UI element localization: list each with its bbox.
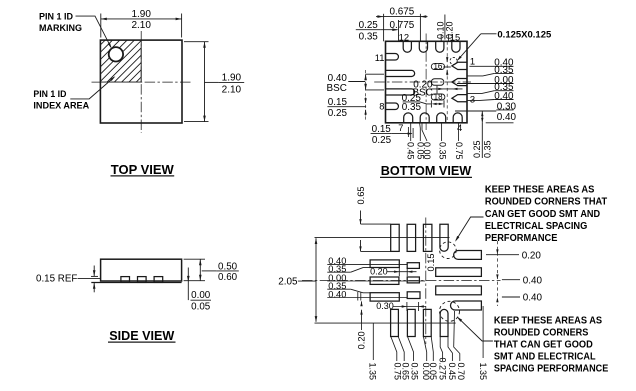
svg-text:0.30: 0.30	[376, 301, 394, 311]
svg-text:0.00: 0.00	[191, 290, 211, 301]
svg-text:0.25: 0.25	[472, 140, 482, 158]
svg-text:1.90: 1.90	[131, 9, 151, 20]
svg-text:0.50: 0.50	[218, 261, 238, 272]
svg-text:2.10: 2.10	[222, 85, 242, 96]
svg-text:BOTTOM VIEW: BOTTOM VIEW	[381, 163, 472, 178]
svg-text:ELECTRICAL SPACING: ELECTRICAL SPACING	[485, 221, 588, 232]
svg-text:0.40: 0.40	[497, 112, 517, 123]
svg-text:0.40: 0.40	[494, 91, 514, 102]
svg-text:8: 8	[379, 100, 384, 111]
svg-text:3: 3	[470, 94, 475, 105]
svg-text:INDEX AREA: INDEX AREA	[33, 100, 89, 111]
svg-text:0.25: 0.25	[372, 135, 392, 146]
svg-text:1.90: 1.90	[222, 73, 242, 84]
svg-text:SPACING PERFORMANCE: SPACING PERFORMANCE	[494, 364, 609, 375]
svg-text:12: 12	[399, 31, 409, 42]
svg-text:0.65: 0.65	[400, 362, 410, 380]
svg-text:ROUNDED CORNERS THAT: ROUNDED CORNERS THAT	[485, 197, 607, 208]
svg-text:PIN 1 ID: PIN 1 ID	[39, 11, 73, 22]
svg-text:SMT AND ELECTRICAL: SMT AND ELECTRICAL	[494, 352, 596, 363]
svg-text:0.20: 0.20	[370, 267, 388, 277]
svg-text:0.60: 0.60	[218, 272, 238, 283]
svg-text:0.20: 0.20	[522, 250, 542, 261]
svg-text:0.45: 0.45	[447, 362, 457, 380]
svg-text:0.40: 0.40	[523, 276, 543, 287]
svg-text:1.35: 1.35	[367, 362, 377, 380]
svg-text:7: 7	[398, 122, 403, 133]
svg-text:0.65: 0.65	[356, 186, 366, 204]
svg-text:16: 16	[433, 62, 442, 71]
svg-text:0.25: 0.25	[328, 108, 348, 119]
svg-text:0.125X0.125: 0.125X0.125	[497, 30, 551, 40]
svg-text:0.35: 0.35	[482, 140, 492, 158]
svg-text:15: 15	[450, 31, 460, 42]
svg-text:KEEP THESE AREAS AS: KEEP THESE AREAS AS	[494, 315, 602, 326]
svg-text:0.675: 0.675	[390, 7, 415, 18]
svg-text:0.15: 0.15	[426, 253, 436, 271]
svg-text:2.10: 2.10	[131, 20, 151, 31]
svg-text:0.00: 0.00	[422, 142, 432, 160]
svg-text:11: 11	[375, 52, 385, 63]
svg-text:TOP VIEW: TOP VIEW	[111, 163, 174, 177]
svg-text:1: 1	[470, 56, 475, 67]
svg-text:2.05: 2.05	[278, 277, 298, 288]
svg-text:0.15 REF: 0.15 REF	[36, 274, 77, 285]
svg-text:CAN GET GOOD SMT AND: CAN GET GOOD SMT AND	[485, 209, 600, 220]
svg-text:0.70: 0.70	[456, 362, 466, 380]
svg-text:0.45: 0.45	[406, 142, 416, 160]
svg-text:0.20: 0.20	[357, 331, 367, 349]
svg-text:0.75: 0.75	[454, 142, 464, 160]
svg-text:1.35: 1.35	[478, 362, 488, 380]
svg-text:18: 18	[434, 92, 443, 101]
svg-text:SIDE VIEW: SIDE VIEW	[109, 329, 174, 343]
svg-text:KEEP THESE AREAS AS: KEEP THESE AREAS AS	[485, 185, 595, 196]
svg-text:0.35: 0.35	[438, 142, 448, 160]
svg-text:PERFORMANCE: PERFORMANCE	[485, 233, 558, 244]
svg-text:0.35: 0.35	[402, 102, 422, 113]
svg-text:MARKING: MARKING	[39, 23, 82, 34]
svg-text:4: 4	[457, 122, 462, 133]
svg-text:THAT CAN GET GOOD: THAT CAN GET GOOD	[494, 340, 593, 351]
svg-text:ROUNDED CORNERS: ROUNDED CORNERS	[494, 327, 589, 338]
svg-text:BSC: BSC	[327, 83, 347, 94]
svg-text:0.05: 0.05	[428, 362, 438, 380]
svg-text:0.35: 0.35	[409, 362, 419, 380]
svg-text:0.35: 0.35	[359, 32, 379, 43]
svg-text:0.30: 0.30	[497, 101, 517, 112]
svg-text:PIN 1 ID: PIN 1 ID	[33, 89, 66, 100]
svg-text:0.40: 0.40	[523, 293, 543, 304]
svg-text:0.05: 0.05	[191, 301, 211, 312]
